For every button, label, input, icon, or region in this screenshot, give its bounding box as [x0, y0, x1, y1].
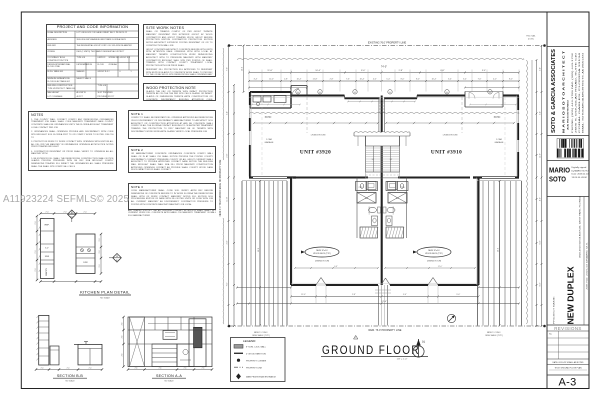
- dimension line east third: [531, 60, 533, 326]
- section aa range: [177, 344, 194, 367]
- dimension line top overall: [248, 65, 520, 73]
- kitchen pantry label: [45, 268, 48, 276]
- note 2 box: [128, 146, 216, 173]
- sheet number: [558, 377, 576, 389]
- kitchen ref label: [45, 225, 50, 227]
- note 3 addendum lines: [128, 210, 216, 218]
- job info vertical: [586, 241, 589, 290]
- legend wood partition item: [234, 353, 266, 356]
- kitchen section marker A: [109, 254, 121, 263]
- garage label west: [265, 138, 275, 144]
- hedge scallop north: [237, 58, 524, 61]
- wood deck bubble east: [413, 247, 451, 257]
- hedge scallop terrace: [249, 112, 519, 115]
- dimension line east outer: [539, 45, 542, 327]
- sheet title row: [549, 366, 587, 370]
- extension lines below building: [291, 286, 479, 304]
- upper dim stub over entries: [248, 87, 520, 89]
- interior dimension line west unit: [253, 122, 379, 124]
- walkway center: [375, 285, 391, 326]
- kitchen section marker B: [68, 210, 77, 222]
- legend box: [231, 338, 286, 382]
- wc boxes center: [372, 216, 393, 226]
- legend property line item: [234, 367, 263, 369]
- section aa upper cabinets: [148, 317, 212, 330]
- kitchen detail dim line left: [35, 215, 38, 281]
- column marker bubbles: [296, 90, 492, 94]
- project name vertical: [566, 266, 576, 324]
- section aa dim bottom: [127, 367, 213, 370]
- section bb dim line: [35, 367, 103, 370]
- stair east flight: [382, 146, 400, 172]
- kitchen side walls: [357, 178, 407, 239]
- patio wall north-west (CBS): [250, 92, 291, 108]
- french door swings south wall: [316, 278, 438, 286]
- kitchen dim top: [39, 211, 96, 214]
- digital signature name: [549, 166, 570, 184]
- general notes box: [28, 111, 117, 171]
- exterior wall north (CBS, hatched): [249, 96, 519, 99]
- flatwork dimension line across driveways: [236, 287, 520, 289]
- wood protection note box: [143, 83, 216, 101]
- section bb counter small: [50, 346, 59, 365]
- interior dashed projection lines: [262, 97, 505, 176]
- sidewalk label east: [485, 332, 503, 337]
- dimension line east inner: [536, 59, 538, 327]
- kitchen island dim right: [99, 233, 102, 275]
- entry porch: [354, 132, 410, 146]
- sidewalk label west: [252, 332, 270, 337]
- project label vertical: [553, 295, 556, 324]
- driveway dimension west: [258, 180, 261, 327]
- range counters hatched west: [360, 227, 378, 238]
- hedge scallop east: [526, 60, 529, 324]
- firm name vertical: [551, 49, 557, 133]
- section aa microwave: [163, 331, 177, 340]
- patio label west: [265, 116, 272, 119]
- exterior wall south (CBS) with door openings: [291, 284, 479, 286]
- architect reg vertical: [567, 99, 570, 130]
- legend cbs wall item: [234, 345, 267, 349]
- architect address lines vertical: [571, 51, 585, 133]
- ac closet west with X: [357, 193, 376, 204]
- project block right rule: [583, 197, 585, 326]
- entry niche east unit with door arcs: [465, 92, 503, 108]
- project address vertical: [579, 195, 582, 258]
- patio label east: [494, 116, 501, 119]
- kitchen cabinet run: [39, 219, 54, 279]
- property line north label: [368, 42, 407, 45]
- section aa dim left: [121, 316, 124, 368]
- dining room label west: [315, 261, 330, 263]
- bottom dimension line overall: [236, 301, 520, 304]
- exterior wall east (CBS): [517, 96, 519, 177]
- ground floor title: [322, 345, 420, 357]
- driveway stripes west: [242, 181, 287, 326]
- core tiny labels: [359, 159, 406, 214]
- wood deck bubble west: [301, 247, 339, 257]
- laundry boxes west: [366, 182, 376, 190]
- laundry boxes east: [388, 182, 398, 190]
- party wall center (CBS): [381, 96, 383, 286]
- interior bearing wall mid (CBS): [249, 176, 519, 178]
- architect name vertical: [562, 51, 566, 133]
- powder room west: [356, 182, 378, 191]
- legend property corner item: [237, 359, 267, 363]
- section aa title: [152, 374, 186, 383]
- title block divider: [546, 12, 548, 389]
- kitchen dim bottom: [39, 280, 102, 282]
- stair west flight: [366, 146, 382, 172]
- title block section lines: [547, 47, 589, 376]
- dimension extension lines top: [249, 70, 519, 92]
- kitchen sink cell labels: [45, 248, 50, 259]
- range counters hatched east: [386, 227, 404, 238]
- patio fixtures north-west: [253, 96, 286, 106]
- property corner markers: [228, 44, 546, 327]
- powder room east: [386, 182, 408, 191]
- architect seal barcode: [557, 139, 584, 159]
- revisions header: [554, 326, 582, 331]
- living room label east: [443, 134, 458, 136]
- driveway dimension east: [497, 180, 500, 327]
- lower block wall east: [478, 178, 480, 286]
- section aa left panel X: [130, 317, 145, 367]
- living room label west: [311, 134, 326, 136]
- date scale row: [553, 361, 584, 364]
- pedestrian entrance symbol: [447, 314, 455, 322]
- dimension line west outer: [226, 45, 229, 327]
- section aa drawers: [152, 344, 177, 367]
- stair dashed under-run: [366, 172, 400, 178]
- section aa frame: [128, 317, 212, 367]
- legend pedestrian entrance item: [236, 373, 276, 379]
- ground floor underline: [321, 357, 428, 361]
- north arrow: [413, 339, 425, 357]
- section bb title: [53, 374, 87, 383]
- driveway stripes east: [478, 181, 522, 326]
- mls watermark: [3, 194, 129, 205]
- fence label west: [220, 159, 222, 216]
- driveway apron lines: [242, 180, 522, 182]
- ac closet east with X: [388, 193, 407, 204]
- revision triangle marker: [354, 335, 358, 339]
- revisions table: [547, 331, 589, 359]
- property line south label: [369, 329, 402, 332]
- bottom dimension line inner: [290, 294, 480, 297]
- section bb sink base: [74, 342, 102, 365]
- project and code information table: [46, 24, 139, 100]
- dimension line west inner: [233, 84, 235, 327]
- recessed wall tick row: [347, 101, 416, 103]
- unit 3920 label: [300, 150, 331, 156]
- garage label east: [495, 138, 505, 144]
- dining room label east: [427, 261, 442, 263]
- site work notes box: [143, 24, 216, 78]
- entry walk rails center: [379, 98, 385, 132]
- property line south dashed: [229, 325, 545, 327]
- survey note top right: [526, 35, 535, 41]
- kitchen plan detail title: [79, 290, 131, 300]
- dimension line top segments: [248, 79, 520, 82]
- note 3 box: [128, 183, 216, 210]
- note 1 box: [128, 110, 216, 139]
- section bb tall cabinet: [37, 315, 49, 365]
- digital signature details: [572, 166, 590, 179]
- unit 3910 label: [431, 150, 462, 156]
- fence line west: [222, 48, 225, 324]
- double sink ovals center: [369, 207, 396, 213]
- dining room dimension line west: [294, 266, 379, 269]
- wall inner face lines: [249, 92, 519, 285]
- dimension stub west top: [241, 45, 244, 94]
- interior dimension line east unit: [385, 122, 515, 124]
- entry niche west unit: [291, 86, 307, 96]
- dining room dimension line east: [384, 266, 476, 269]
- exterior wall west (CBS): [249, 92, 251, 177]
- section aa fridge cabinet: [189, 319, 206, 367]
- kitchen island: [76, 234, 95, 274]
- property line north dashed: [229, 45, 545, 47]
- kitchen dw label: [83, 262, 88, 264]
- living room tick rows below top wall: [251, 104, 517, 106]
- lower block wall west: [290, 178, 292, 286]
